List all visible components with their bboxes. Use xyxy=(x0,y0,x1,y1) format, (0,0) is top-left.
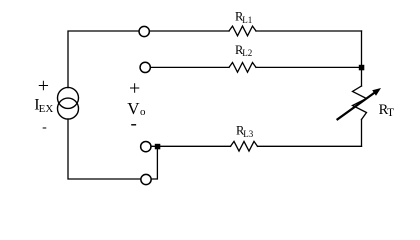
svg-text:o: o xyxy=(140,106,146,118)
svg-text:-: - xyxy=(42,120,47,135)
svg-text:L1: L1 xyxy=(242,15,252,25)
svg-text:T: T xyxy=(387,107,394,119)
svg-text:+: + xyxy=(38,75,49,97)
svg-text:EX: EX xyxy=(39,103,54,115)
svg-text:-: - xyxy=(131,114,137,135)
svg-text:L2: L2 xyxy=(242,48,252,58)
svg-text:L3: L3 xyxy=(243,129,253,139)
svg-text:+: + xyxy=(129,78,140,100)
